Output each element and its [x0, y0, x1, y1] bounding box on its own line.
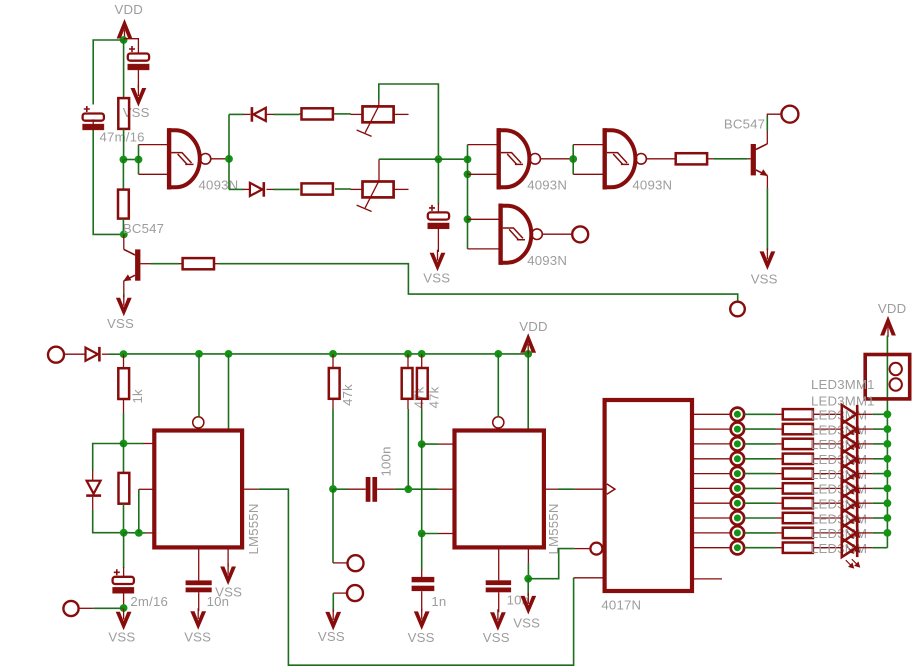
wire T2 emitter to VSS [766, 188, 768, 250]
pin lead G3 input 1 [573, 144, 603, 146]
port pad circle at G4 output [572, 226, 588, 242]
svg-text:LED3MM1: LED3MM1 [811, 377, 875, 392]
wire VDD junction down to R1 [123, 40, 125, 98]
transistor T1 BC547 base bar [135, 249, 140, 280]
wire VDD junction left and down to C2 top [93, 40, 123, 105]
pin lead G2 input 1 [468, 144, 498, 146]
connector pin circle 1 [890, 363, 902, 375]
resistor R10 47k [402, 368, 413, 399]
pin lead G1 input 2 [139, 173, 168, 175]
pin lead port TP2 [333, 592, 347, 594]
trimmer P2 wiper lead [378, 159, 380, 182]
resistor R21 (LED row 10) [783, 543, 813, 553]
reset bubble circle of U3 [590, 543, 602, 555]
IC U1 LM555N body [154, 431, 242, 548]
junction dot inside Q4 pad [734, 470, 741, 477]
wire R4 right around to port (feedback) [219, 264, 738, 302]
LED D13 emission arrows [846, 544, 860, 553]
wire rail to U1 reset top [198, 354, 200, 417]
wire Q5 pad to resistor [744, 487, 775, 489]
pin lead G4 output [542, 233, 572, 235]
junction G2 input net upper [464, 156, 472, 164]
wire R5 to P2 [335, 188, 351, 190]
svg-text:VSS: VSS [184, 630, 211, 645]
testpoint pad ring on Q7 [731, 511, 744, 524]
NAND gate G3 4093N (drives T2) [605, 128, 647, 189]
diode D3 left lead [65, 353, 86, 355]
resistor R17 (LED row 6) [783, 483, 813, 493]
resistor R14 right lead [813, 443, 842, 445]
NAND gate G2 4093N (middle) [499, 128, 541, 189]
wire Q6 pad to resistor [744, 502, 775, 504]
VDD supply arrow symbol (top left) [117, 19, 133, 39]
svg-text:VSS: VSS [215, 584, 242, 599]
LED D8 LED3MM (row 4) [842, 449, 856, 468]
LED supply bus vertical [886, 336, 888, 548]
wire R10 bottom to trigger node [407, 409, 409, 489]
junction G4 input net [464, 215, 472, 223]
junction dot inside Q0 pad [734, 411, 741, 418]
svg-text:VSS: VSS [423, 270, 450, 285]
wire IC1 trigger pin loop vertical [138, 489, 140, 533]
svg-text:LED3MM: LED3MM [811, 408, 867, 423]
junction dot inside Q3 pad [734, 455, 741, 462]
LED D10 LED3MM (row 6) [842, 479, 856, 498]
pin lead 4017 output Q4 [694, 473, 730, 475]
svg-text:4093N: 4093N [199, 178, 239, 193]
pin lead 4017 output Q8 [694, 532, 730, 534]
wire R6 to T2 base [714, 158, 748, 160]
svg-text:LED3MM: LED3MM [811, 482, 867, 497]
capacitor C1 bottom lead [137, 70, 139, 88]
VSS arrow under C6 junction [116, 612, 132, 631]
wire T2 collector to port [766, 116, 768, 131]
resistor R13 (LED row 2) [783, 424, 813, 434]
capacitor C8 bottom lead [421, 591, 423, 611]
pin lead 4017 output Q1 [694, 428, 730, 430]
resistor R12 (LED row 1) [783, 409, 813, 419]
svg-text:1n: 1n [431, 594, 446, 609]
pin lead 4017 enable [574, 577, 603, 579]
pin lead IC2 trigger [438, 488, 453, 490]
LED D7 emission arrows [846, 455, 860, 464]
wire Q7 pad to resistor [744, 517, 775, 519]
junction supply bus row 8 [884, 514, 892, 522]
capacitor C9 10n plates [486, 580, 511, 585]
wire C7 to IC2 trigger [395, 488, 439, 490]
LED D11 cathode lead [859, 502, 873, 504]
wire timing junction right to G2 input net [438, 158, 467, 160]
wire R3 to P1 [335, 113, 351, 115]
LED D6 emission arrows [846, 441, 860, 450]
pin lead U1 gnd bottom 2 [227, 549, 229, 567]
wire LED row 2 to supply bus [873, 428, 888, 430]
VSS arrow under U1 gnd [220, 567, 236, 586]
svg-text:BC547: BC547 [123, 221, 164, 236]
resistor R16 (LED row 5) [783, 468, 813, 478]
junction node B (R7/R8/IC1) [120, 440, 128, 448]
wire Q1 pad to resistor [744, 428, 775, 430]
capacitor C3 electrolytic (near gates) [428, 205, 449, 229]
LED D14 cathode lead [859, 547, 873, 549]
resistor R17 left lead [776, 487, 783, 489]
wire to D1 (upper row) [229, 113, 244, 115]
T1 collector lead [123, 234, 125, 249]
resistor R8 (vertical, beside D4) [119, 473, 130, 504]
diode D3 right lead [102, 353, 109, 355]
junction timing node (pots/cap C3) [435, 155, 443, 163]
resistor R18 left lead [776, 502, 783, 504]
pin lead G3 output [646, 158, 675, 160]
LED D13 LED3MM (row 9) [842, 524, 856, 543]
junction dot inside Q7 pad [734, 515, 741, 522]
svg-text:LED3MM: LED3MM [811, 541, 867, 556]
pin lead 4017 output Q6 [694, 502, 730, 504]
capacitor C1 electrolytic (to VSS) [128, 46, 149, 70]
transistor T1 collector stroke [124, 249, 135, 255]
LED D9 emission arrows [846, 485, 860, 494]
capacitor C9 bottom lead [498, 592, 500, 612]
VSS arrow under T1 emitter [116, 298, 132, 317]
resistor R13 left lead [776, 428, 783, 430]
resistor R9 bottom lead [332, 399, 334, 409]
pin lead 4017 output Q7 [694, 517, 730, 519]
wire gate G1 tied inputs vertical [138, 145, 140, 175]
junction C6 bottom / port [120, 604, 128, 612]
wire U2 pin to reset ground node [527, 563, 529, 579]
testpoint pad ring on Q3 [731, 452, 744, 465]
wire C2 bottom down to T1 collector node [93, 131, 124, 235]
wire U1 output long loop to 4017 enable [259, 489, 574, 665]
connector pin circle 2 [890, 378, 902, 390]
junction dot inside Q9 pad [734, 544, 741, 551]
svg-text:VDD: VDD [519, 319, 547, 334]
junction at G1 output node [225, 155, 233, 163]
port pad circle bottom-left input [48, 347, 64, 363]
resistor R19 right lead [813, 517, 842, 519]
T2 emitter lead down [766, 176, 768, 188]
resistor R12 left lead [776, 413, 783, 415]
wire U2 output to 4017 clock [558, 488, 575, 490]
IC U2 LM555N body [455, 431, 544, 548]
wire G1 output vertical to diode rows [228, 114, 230, 189]
port lead [79, 607, 94, 609]
wire node B down to R8 [123, 444, 125, 474]
LED D9 LED3MM (row 5) [842, 464, 856, 483]
svg-text:2m/16: 2m/16 [130, 594, 168, 609]
diode D2 right lead [267, 188, 274, 190]
resistor R9 47k [329, 368, 340, 399]
testpoint pad ring on Q9 [731, 541, 744, 554]
pin lead G4 input 2 [468, 248, 500, 250]
LED D14 LED3MM (row 10) [842, 538, 856, 557]
wire Q9 pad to resistor [744, 547, 775, 549]
resistor R18 (LED row 7) [783, 498, 813, 508]
pin lead U2 output [546, 488, 558, 490]
pin lead port TP1 [333, 562, 348, 564]
resistor R5 (lower diode row) [302, 183, 333, 194]
svg-text:BC547: BC547 [724, 116, 765, 131]
junction R10 bottom / trigger line [404, 485, 412, 493]
wire G3 tied inputs vertical [572, 145, 574, 175]
junction node A (R1/R2/gate input net) [120, 156, 128, 164]
pin lead IC1 node B [143, 443, 153, 445]
diode D2 (cathode right) [250, 183, 262, 196]
resistor R11 top lead [421, 354, 423, 368]
transistor T1 emitter stroke [124, 275, 135, 281]
wire P1 wiper up and over to timing node [379, 84, 439, 159]
junction supply bus row 7 [884, 499, 892, 507]
wire LED row 1 to supply bus [873, 413, 888, 415]
svg-text:4093N: 4093N [632, 178, 672, 193]
pin lead 4017 output Q0 [694, 413, 730, 415]
wire LED row 7 to supply bus [873, 502, 888, 504]
diode D1 left lead [244, 113, 251, 115]
pin lead 4017 reset [575, 548, 591, 550]
pin lead T2 base [748, 158, 751, 160]
wire T1 base to R4 [151, 263, 180, 265]
resistor R10 top lead [407, 354, 409, 368]
pin lead IC1 threshold [146, 532, 153, 534]
LED D10 emission arrows [846, 500, 860, 509]
junction supply bus row 5 [884, 470, 892, 478]
wire timing junction down to C3 [437, 159, 439, 204]
junction reset ground node [524, 575, 532, 583]
wire P2 wiper node to timing junction [379, 158, 438, 160]
pin lead U2 gnd bottom 1 [498, 549, 500, 580]
wire node B to IC1 pin [127, 443, 144, 445]
capacitor C7 right lead [377, 488, 395, 490]
port pad circle TP2 [347, 585, 363, 601]
resistor R14 left lead [776, 443, 783, 445]
junction at gate G1 input tie [135, 156, 143, 164]
resistor R16 right lead [813, 473, 842, 475]
svg-text:47k: 47k [340, 384, 355, 406]
pin lead G2 output [540, 158, 573, 160]
LED D9 cathode lead [859, 473, 873, 475]
resistor R20 right lead [813, 532, 842, 534]
wire LED row 6 to supply bus [873, 487, 888, 489]
resistor R3 leads [299, 113, 301, 115]
junction control node [418, 530, 426, 538]
junction supply bus row 4 [884, 455, 892, 463]
wire T1 emitter to VSS [123, 293, 125, 298]
IC U3 4017N body [605, 400, 692, 591]
wire node B left to D4 branch [93, 444, 124, 471]
wire R7 bottom to node B [123, 413, 125, 444]
pin lead IC1 trigger [139, 488, 153, 490]
junction rail at R11 [418, 350, 426, 358]
svg-text:4093N: 4093N [527, 178, 567, 193]
trimmer potentiometer P2 [357, 182, 394, 212]
pin lead 4017 output Q9 [694, 547, 730, 549]
wire LED row 9 to supply bus [873, 532, 888, 534]
svg-text:VSS: VSS [483, 630, 510, 645]
resistor R19 (LED row 8) [783, 513, 813, 523]
VDD supply arrow top right [880, 316, 896, 336]
VSS arrow under C1 [131, 88, 147, 107]
LED D8 emission arrows [846, 470, 860, 479]
T1 emitter lead down [123, 281, 125, 293]
wire LED row 5 to supply bus [873, 473, 888, 475]
wire port to C6 junction [94, 607, 124, 609]
capacitor C2 electrolytic 47m/16 [83, 106, 104, 130]
wire R9 bottom to 100n node [332, 409, 334, 489]
capacitor C6 electrolytic 2m/16 [113, 569, 134, 593]
svg-text:LED3MM: LED3MM [811, 437, 867, 452]
connector box SV1 (top right) [865, 355, 910, 399]
svg-text:4017N: 4017N [601, 598, 641, 613]
capacitor C5 bottom lead [198, 592, 200, 611]
resistor R13 right lead [813, 428, 842, 430]
resistor R9 top lead [332, 354, 334, 368]
junction dot inside Q6 pad [734, 500, 741, 507]
svg-text:LED3MM: LED3MM [811, 497, 867, 512]
transistor T1 emitter arrowhead [123, 274, 131, 281]
LED D7 LED3MM (row 3) [842, 435, 856, 454]
diode D4 top lead [92, 470, 94, 480]
trimmer P1 wiper lead [378, 99, 380, 107]
svg-text:VDD: VDD [115, 2, 143, 17]
wire node C to IC1 lower pin tie [124, 532, 146, 534]
svg-text:100n: 100n [379, 446, 394, 476]
supply rail VDD (horizontal) [124, 353, 529, 355]
resistor R20 left lead [776, 532, 783, 534]
resistor R19 left lead [776, 517, 783, 519]
wire R11 bottom to discharge node [421, 409, 423, 444]
resistor R3 (upper diode row) [302, 108, 333, 119]
svg-text:VDD: VDD [878, 301, 906, 316]
resistor R17 right lead [813, 487, 842, 489]
resistor R2 (vertical, above T1) [118, 190, 129, 219]
pin lead G1 output [211, 158, 229, 160]
NAND gate G4 4093N (lower spare) [501, 204, 543, 265]
VSS arrow under reset node [520, 596, 536, 615]
wire Q0 pad to resistor [744, 413, 775, 415]
LED D12 cathode lead [859, 517, 873, 519]
VSS arrow under C3 [430, 253, 446, 272]
svg-text:VSS: VSS [107, 316, 134, 331]
resistor R21 left lead [776, 547, 783, 549]
transistor T2 collector stroke [756, 144, 767, 150]
junction rail at IC2 reset [494, 350, 502, 358]
diode D3 (series input diode) [86, 348, 98, 361]
wire LED row 3 to supply bus [873, 443, 888, 445]
resistor R15 right lead [813, 458, 842, 460]
wire rail to U2 vcc top [527, 354, 529, 429]
port pad circle on feedback wire [730, 302, 745, 317]
pin lead 4017 clock [575, 488, 603, 490]
pin lead G2 input 2 [468, 173, 498, 175]
wire R2 bottom to collector junction [122, 219, 124, 235]
LED D6 cathode lead [859, 428, 873, 430]
LED D12 LED3MM (row 8) [842, 509, 856, 528]
junction rail at VDD arrow [524, 350, 532, 358]
junction node at VDD rail top-left [120, 36, 128, 44]
resistor R6 right lead [707, 158, 714, 160]
wire LED row 4 to supply bus [873, 458, 888, 460]
trimmer P2 left lead [351, 188, 363, 190]
VSS arrow under T2 emitter [760, 251, 776, 270]
wire lower row from G1 vertical [229, 188, 244, 190]
trimmer P1 left lead [351, 113, 363, 115]
pin lead IC2 discharge [438, 443, 453, 445]
diode D4 (vertical, cathode down) [87, 481, 101, 494]
svg-text:47k: 47k [427, 386, 442, 408]
LED D5 emission arrows [846, 426, 860, 435]
diode D4 bottom lead [92, 497, 94, 510]
wire discharge node down [421, 444, 423, 533]
diode D1 (cathode left) [253, 108, 265, 121]
junction supply bus row 1 [884, 410, 892, 418]
port pad circle TP1 [348, 555, 364, 571]
wire node C down to C6 [123, 533, 125, 568]
pin lead 4017 output Q3 [694, 458, 730, 460]
diode D2 left lead [244, 188, 250, 190]
pin lead T1 base [140, 263, 151, 265]
capacitor C8 top lead [421, 570, 423, 577]
testpoint pad ring on Q6 [731, 497, 744, 510]
pin lead 4017 output Q2 [694, 443, 730, 445]
junction dot inside Q8 pad [734, 529, 741, 536]
wire control node to IC2 pin [422, 533, 438, 535]
LED D11 emission arrows [846, 515, 860, 524]
junction 100n left node [329, 485, 337, 493]
svg-text:LED3MM: LED3MM [811, 422, 867, 437]
wire Q3 pad to resistor [744, 458, 775, 460]
wire R1 bottom to node A [123, 129, 125, 160]
resistor R11 47k [417, 368, 428, 399]
trimmer P1 right lead [394, 113, 409, 115]
wire reset node down to VSS [527, 579, 529, 596]
pin lead G4 input 1 [468, 218, 500, 220]
transistor T2 emitter stroke [756, 170, 768, 176]
wire G2/G4 input vertical bus [467, 145, 469, 249]
svg-text:VSS: VSS [408, 630, 435, 645]
wire D4 bottom to node C [93, 510, 124, 533]
resistor R12 right lead [813, 413, 842, 415]
transistor T2 BC547 base bar [751, 144, 756, 175]
junction discharge node [418, 440, 426, 448]
capacitor C8 1n plates [412, 577, 435, 582]
port pad circle bottom-left 2 [63, 601, 78, 616]
junction G2 input net lower [464, 170, 472, 178]
svg-text:1k: 1k [130, 389, 145, 404]
VDD supply arrow at rail [520, 333, 536, 353]
junction supply bus row 2 [884, 425, 892, 433]
resistor R7 top lead [123, 354, 125, 368]
svg-text:VSS: VSS [318, 629, 345, 644]
junction IC1 threshold tie [135, 529, 143, 537]
capacitor C5 10n plates [186, 580, 212, 585]
clock input wedge inside U3 [607, 484, 615, 494]
LED D5 cathode lead [859, 413, 873, 415]
junction rail at R7 [120, 350, 128, 358]
svg-text:47k: 47k [411, 386, 426, 408]
LED D5 LED3MM (row 1) [842, 405, 856, 424]
svg-text:VSS: VSS [108, 629, 135, 644]
T2 collector lead up [766, 131, 768, 144]
svg-text:LED3MM: LED3MM [811, 526, 867, 541]
testpoint pad ring on Q1 [731, 422, 744, 435]
svg-text:VSS: VSS [123, 105, 150, 120]
wire D3 to rail [109, 353, 124, 355]
junction dot inside Q2 pad [734, 440, 741, 447]
resistor R16 left lead [776, 473, 783, 475]
wire 100n node down to port [332, 489, 334, 563]
resistor R21 right lead [813, 547, 842, 549]
wire discharge node to IC2 pin [422, 443, 438, 445]
